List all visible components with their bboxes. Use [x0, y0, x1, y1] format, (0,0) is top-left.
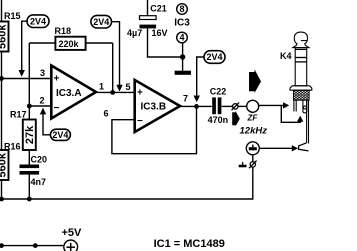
svg-text:2V4: 2V4 — [206, 52, 222, 62]
svg-text:IC3: IC3 — [174, 18, 190, 29]
svg-text:C22: C22 — [210, 87, 227, 97]
svg-text:8: 8 — [179, 4, 184, 14]
svg-text:ZF: ZF — [247, 114, 259, 123]
svg-text:560k: 560k — [0, 152, 9, 177]
svg-text:220k: 220k — [59, 39, 80, 49]
svg-text:IC1 = MC1489: IC1 = MC1489 — [154, 238, 225, 250]
svg-text:4µ7: 4µ7 — [127, 28, 142, 38]
svg-text:K4: K4 — [280, 51, 292, 61]
svg-text:12kHz: 12kHz — [240, 126, 268, 137]
svg-text:5: 5 — [126, 82, 131, 92]
svg-text:C21: C21 — [150, 4, 167, 14]
svg-text:3: 3 — [40, 68, 45, 78]
svg-text:2: 2 — [40, 96, 45, 106]
svg-text:R16: R16 — [4, 142, 21, 152]
svg-text:R17: R17 — [10, 110, 27, 120]
svg-text:IC3.B: IC3.B — [141, 102, 167, 113]
svg-text:C20: C20 — [31, 155, 48, 165]
svg-text:IC3.A: IC3.A — [56, 88, 82, 99]
svg-text:R15: R15 — [4, 11, 21, 21]
svg-text:+: + — [137, 88, 143, 99]
svg-text:470n: 470n — [208, 115, 229, 125]
svg-text:6: 6 — [104, 109, 109, 119]
svg-text:−: − — [137, 116, 143, 127]
svg-text:4n7: 4n7 — [31, 177, 47, 187]
svg-text:2V4: 2V4 — [93, 17, 109, 27]
svg-text:2V4: 2V4 — [52, 130, 68, 140]
svg-text:27k: 27k — [24, 125, 36, 144]
svg-text:−: − — [54, 103, 60, 114]
svg-text:2V4: 2V4 — [30, 16, 46, 26]
svg-text:R18: R18 — [55, 26, 72, 36]
svg-text:4: 4 — [179, 33, 184, 43]
svg-text:560k: 560k — [0, 24, 9, 49]
svg-text:+: + — [54, 74, 60, 85]
svg-text:16V: 16V — [152, 28, 168, 38]
svg-text:+5V: +5V — [62, 227, 83, 239]
svg-text:1: 1 — [99, 82, 104, 92]
svg-text:7: 7 — [183, 94, 188, 104]
